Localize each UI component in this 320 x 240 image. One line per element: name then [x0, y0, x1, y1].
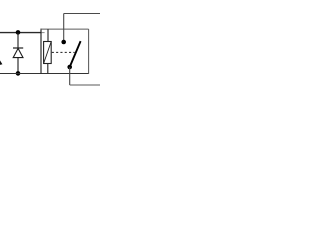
switch pivot dot [67, 65, 72, 70]
node A junction dot top of diode [16, 30, 21, 35]
wire top-right contact feed [64, 13, 100, 15]
wire top-left supply [0, 32, 42, 34]
mechanical link dashed line [52, 51, 75, 53]
wire pivot drop [69, 67, 71, 85]
wire diode bottom lead [17, 58, 19, 74]
switch lever [70, 41, 81, 67]
wire bottom rail [0, 73, 89, 75]
voltage arrowhead fragment at left edge [0, 60, 2, 65]
switch fixed contact dot [61, 40, 66, 45]
wire bottom-right rail [70, 84, 100, 86]
node B junction dot bottom of diode [16, 71, 21, 76]
relay coil K1 box [44, 42, 52, 64]
diode D1 cathode bar [13, 47, 23, 49]
wire coil top rail [41, 28, 89, 30]
wire coil top terminal [47, 29, 49, 41]
wire right vertical return [88, 29, 90, 74]
relay coil K1 diagonal [44, 42, 52, 64]
wire left vertical branch [40, 29, 42, 74]
wire contact vertical [63, 14, 65, 41]
wire diode anode lead [17, 33, 19, 49]
wire stub right of junction [42, 32, 45, 34]
diode D1 triangle [13, 48, 23, 57]
wire coil bottom terminal [47, 64, 49, 74]
